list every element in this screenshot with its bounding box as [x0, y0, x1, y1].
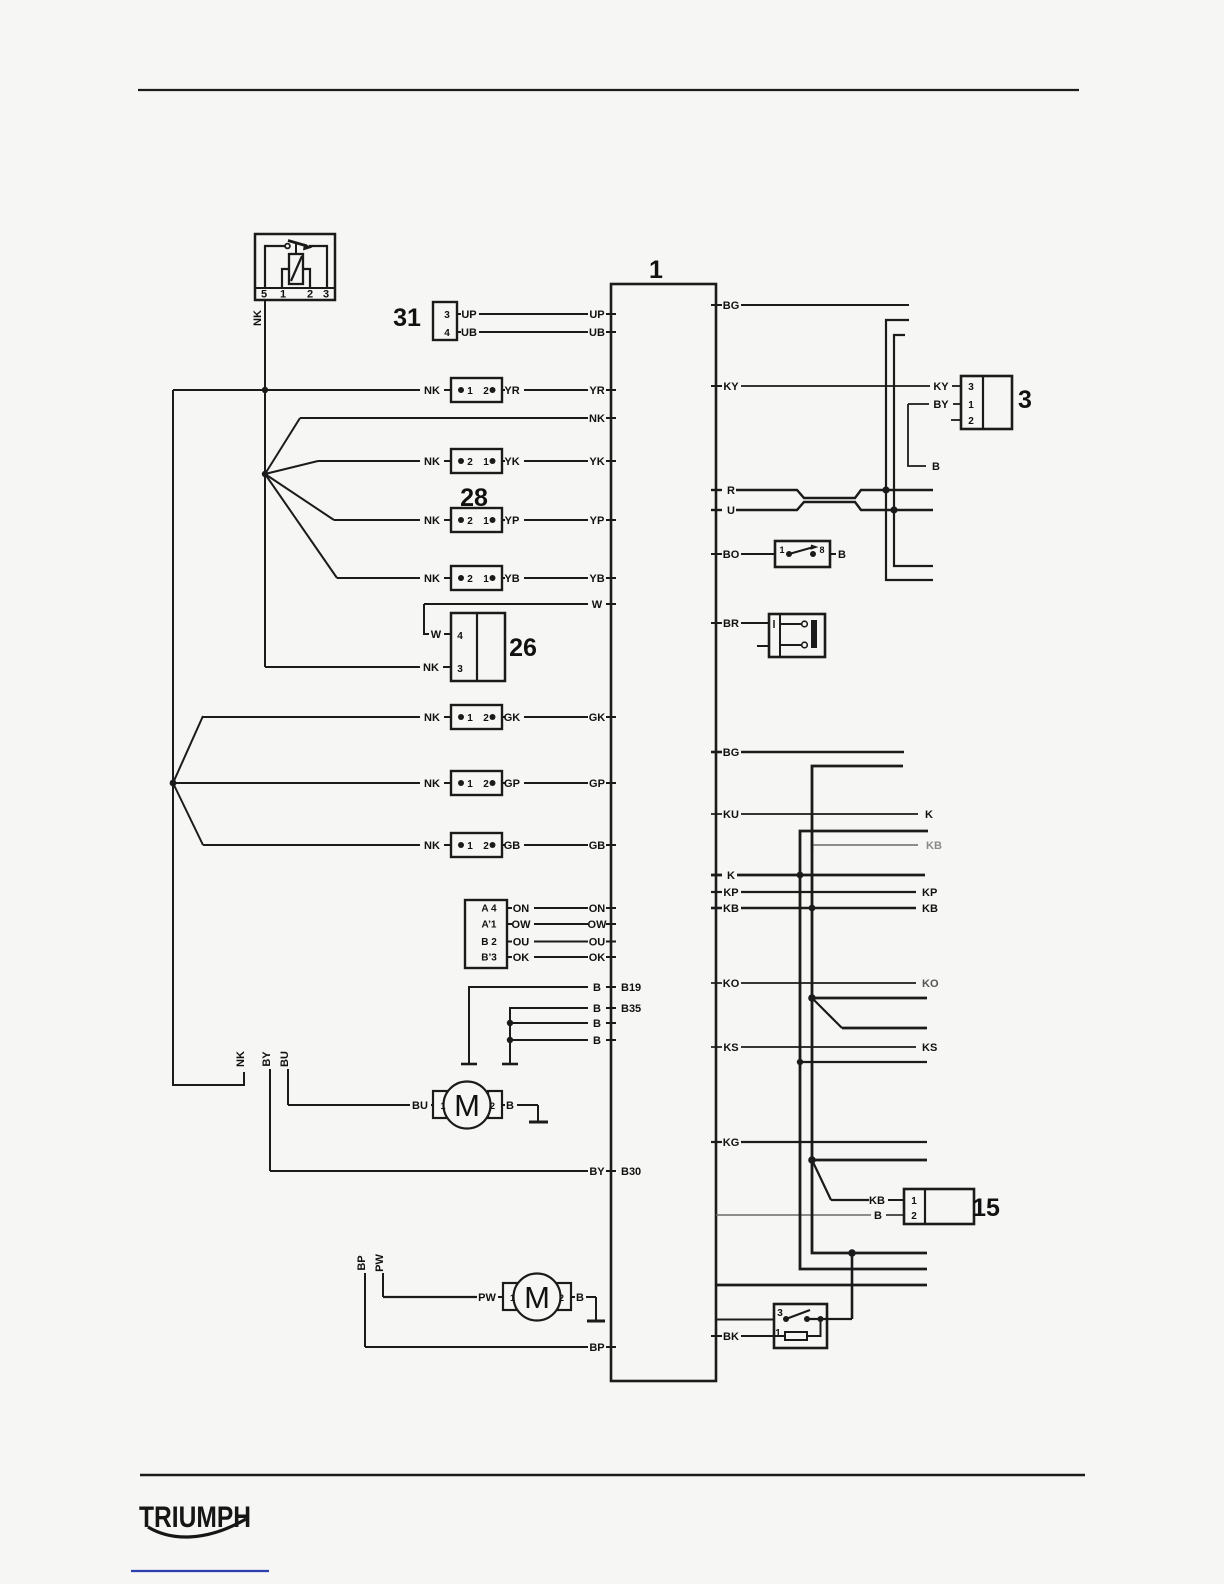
svg-text:ON: ON	[513, 903, 530, 915]
svg-text:R: R	[727, 485, 735, 497]
svg-text:BO: BO	[723, 549, 740, 561]
svg-text:1: 1	[440, 1101, 445, 1111]
svg-text:2: 2	[483, 386, 489, 397]
svg-text:2: 2	[467, 516, 473, 527]
svg-text:1: 1	[649, 256, 663, 284]
svg-text:W: W	[592, 599, 603, 611]
svg-text:1: 1	[911, 1196, 917, 1207]
svg-text:GB: GB	[504, 840, 521, 852]
svg-text:BK: BK	[723, 1331, 739, 1343]
svg-text:NK: NK	[424, 712, 440, 724]
svg-text:KU: KU	[723, 809, 739, 821]
svg-text:KG: KG	[723, 1137, 740, 1149]
svg-text:UP: UP	[589, 309, 604, 321]
svg-text:OK: OK	[513, 952, 530, 964]
svg-text:1: 1	[483, 457, 489, 468]
svg-text:PW: PW	[374, 1254, 386, 1272]
svg-text:TRIUMPH: TRIUMPH	[139, 1501, 251, 1534]
svg-text:1: 1	[483, 516, 489, 527]
svg-text:BY: BY	[589, 1166, 605, 1178]
svg-text:4: 4	[457, 631, 463, 642]
svg-text:KB: KB	[926, 840, 942, 852]
svg-text:KO: KO	[922, 978, 939, 990]
svg-text:KB: KB	[869, 1195, 885, 1207]
svg-text:NK: NK	[424, 456, 440, 468]
svg-text:KY: KY	[723, 381, 739, 393]
svg-text:YB: YB	[504, 573, 519, 585]
svg-text:K: K	[727, 870, 735, 882]
svg-text:2: 2	[968, 416, 974, 427]
svg-text:YK: YK	[504, 456, 519, 468]
svg-text:UP: UP	[461, 309, 476, 321]
svg-text:B: B	[838, 549, 846, 561]
svg-text:1: 1	[775, 1328, 781, 1339]
svg-text:KO: KO	[723, 978, 740, 990]
svg-text:NK: NK	[424, 515, 440, 527]
svg-text:1: 1	[467, 713, 473, 724]
svg-text:2: 2	[559, 1293, 564, 1303]
svg-text:2: 2	[467, 457, 473, 468]
svg-text:GK: GK	[504, 712, 521, 724]
svg-text:BY: BY	[933, 399, 949, 411]
svg-text:BR: BR	[723, 618, 739, 630]
svg-text:2: 2	[483, 713, 489, 724]
svg-text:3: 3	[323, 289, 329, 301]
svg-text:KP: KP	[922, 887, 937, 899]
svg-text:NK: NK	[589, 413, 605, 425]
svg-text:3: 3	[1018, 386, 1032, 414]
svg-text:B: B	[593, 1018, 601, 1030]
svg-text:A’1: A’1	[481, 920, 496, 931]
svg-text:B: B	[593, 982, 601, 994]
svg-text:2: 2	[490, 1101, 495, 1111]
svg-text:B: B	[576, 1292, 584, 1304]
svg-text:NK: NK	[424, 573, 440, 585]
svg-text:PW: PW	[478, 1292, 496, 1304]
svg-text:B 2: B 2	[481, 937, 497, 948]
svg-text:YP: YP	[590, 515, 605, 527]
svg-text:KB: KB	[922, 903, 938, 915]
svg-text:3: 3	[444, 310, 450, 321]
svg-text:BU: BU	[279, 1051, 291, 1067]
svg-text:2: 2	[911, 1211, 917, 1222]
svg-text:B: B	[593, 1003, 601, 1015]
svg-text:OU: OU	[589, 937, 606, 949]
svg-text:W: W	[431, 629, 442, 641]
svg-text:8: 8	[819, 545, 824, 555]
svg-text:OK: OK	[589, 952, 606, 964]
svg-text:KP: KP	[723, 887, 738, 899]
svg-text:1: 1	[779, 545, 784, 555]
svg-text:26: 26	[509, 634, 537, 662]
svg-text:NK: NK	[252, 310, 264, 326]
svg-text:NK: NK	[424, 840, 440, 852]
svg-text:4: 4	[444, 328, 450, 339]
svg-text:YK: YK	[589, 456, 604, 468]
svg-text:KB: KB	[723, 903, 739, 915]
svg-text:K: K	[925, 809, 933, 821]
svg-text:2: 2	[307, 289, 313, 301]
svg-text:NK: NK	[424, 778, 440, 790]
svg-text:NK: NK	[235, 1051, 247, 1067]
svg-text:1: 1	[280, 289, 286, 301]
svg-text:OW: OW	[512, 919, 532, 931]
svg-text:1: 1	[483, 574, 489, 585]
svg-text:B’3: B’3	[481, 953, 497, 964]
svg-text:YB: YB	[589, 573, 604, 585]
svg-text:YR: YR	[504, 385, 519, 397]
svg-text:GB: GB	[589, 840, 606, 852]
svg-text:YP: YP	[505, 515, 520, 527]
svg-text:5: 5	[261, 289, 267, 301]
svg-text:KY: KY	[933, 381, 949, 393]
svg-text:2: 2	[483, 779, 489, 790]
svg-text:3: 3	[457, 664, 463, 675]
svg-text:3: 3	[968, 382, 974, 393]
svg-text:NK: NK	[423, 662, 439, 674]
svg-text:UB: UB	[589, 327, 605, 339]
svg-text:A 4: A 4	[481, 904, 497, 915]
svg-text:1: 1	[467, 386, 473, 397]
svg-text:1: 1	[467, 841, 473, 852]
svg-text:28: 28	[460, 484, 488, 512]
svg-text:BP: BP	[356, 1255, 368, 1270]
svg-text:B: B	[593, 1035, 601, 1047]
svg-text:M: M	[524, 1280, 550, 1315]
svg-text:GK: GK	[589, 712, 606, 724]
svg-text:BG: BG	[723, 747, 740, 759]
svg-text:M: M	[454, 1088, 480, 1123]
svg-text:B: B	[932, 461, 940, 473]
svg-text:2: 2	[483, 841, 489, 852]
svg-text:NK: NK	[424, 385, 440, 397]
svg-text:OU: OU	[513, 937, 530, 949]
svg-text:ON: ON	[589, 903, 606, 915]
svg-text:OW: OW	[588, 919, 608, 931]
svg-text:B: B	[874, 1210, 882, 1222]
svg-text:U: U	[727, 505, 735, 517]
svg-text:B35: B35	[621, 1003, 641, 1015]
svg-text:BY: BY	[261, 1051, 273, 1067]
svg-text:UB: UB	[461, 327, 477, 339]
svg-text:BU: BU	[412, 1100, 428, 1112]
svg-text:B30: B30	[621, 1166, 641, 1178]
svg-text:BG: BG	[723, 300, 740, 312]
svg-text:15: 15	[972, 1194, 1000, 1222]
svg-text:GP: GP	[504, 778, 520, 790]
svg-text:BP: BP	[589, 1342, 604, 1354]
svg-text:2: 2	[467, 574, 473, 585]
svg-text:1: 1	[467, 779, 473, 790]
svg-text:1: 1	[510, 1293, 515, 1303]
svg-text:B: B	[506, 1100, 514, 1112]
svg-text:3: 3	[777, 1308, 783, 1319]
svg-text:YR: YR	[589, 385, 604, 397]
svg-text:1: 1	[968, 400, 974, 411]
svg-text:KS: KS	[922, 1042, 937, 1054]
svg-text:KS: KS	[723, 1042, 738, 1054]
svg-text:31: 31	[393, 304, 421, 332]
svg-text:B19: B19	[621, 982, 641, 994]
svg-text:GP: GP	[589, 778, 605, 790]
